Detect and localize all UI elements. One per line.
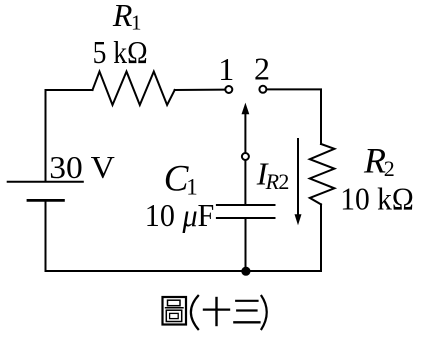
switch pole circle — [242, 153, 249, 160]
svg-text:10 μF: 10 μF — [145, 197, 215, 233]
switch terminal 2 circle — [259, 86, 266, 93]
battery V1 short plate — [28, 199, 63, 202]
wire R1 to switch terminal 1 — [175, 89, 225, 91]
wire bottom rail — [46, 270, 322, 272]
svg-text:R: R — [265, 169, 280, 194]
svg-text:1: 1 — [218, 51, 234, 87]
junction node dot — [241, 267, 250, 276]
svg-text:R: R — [112, 0, 133, 33]
svg-text:2: 2 — [384, 156, 395, 181]
caption glyph TU (figure) outer box — [163, 297, 187, 325]
caption open parenthesis — [191, 295, 199, 330]
battery V1 long plate — [8, 181, 83, 183]
resistor R2 — [310, 144, 335, 204]
wire right rail bottom — [320, 204, 322, 271]
wire left rail bottom — [45, 201, 47, 271]
resistor R1 — [93, 72, 175, 106]
caption glyph SAN (three) middle stroke — [236, 309, 258, 311]
capacitor C1 bottom lead — [245, 218, 247, 271]
current IR2 arrow line — [297, 139, 299, 215]
capacitor C1 top lead — [244, 161, 246, 205]
wire left rail top — [46, 90, 93, 181]
current IR2 arrowhead — [295, 214, 302, 225]
switch pole wire with arrow — [244, 112, 246, 152]
caption glyph TU bottom inner box — [170, 313, 179, 318]
capacitor C1 top plate — [217, 204, 275, 206]
switch arrowhead — [242, 103, 250, 115]
svg-text:2: 2 — [254, 51, 270, 87]
caption glyph TU inner top box — [168, 300, 181, 306]
capacitor C1 bottom plate — [217, 217, 275, 219]
caption glyph SHI (ten) vertical — [215, 297, 217, 326]
caption glyph TU middle horizontal — [165, 307, 184, 309]
svg-text:1: 1 — [131, 10, 142, 34]
caption glyph SAN (three) bottom stroke — [233, 321, 260, 323]
svg-text:5 kΩ: 5 kΩ — [93, 34, 148, 70]
svg-text:2: 2 — [278, 169, 289, 194]
caption glyph SAN (three) top stroke — [235, 300, 259, 302]
caption close parenthesis — [261, 295, 267, 330]
svg-text:10 kΩ: 10 kΩ — [340, 181, 414, 217]
wire switch terminal 2 to right rail — [267, 89, 321, 144]
caption figure (thirteen) : drawn glyphs — [163, 295, 267, 330]
caption glyph SHI (ten) horizontal — [203, 309, 230, 311]
svg-text:1: 1 — [186, 174, 198, 199]
caption glyph TU bottom outer box — [166, 310, 181, 321]
switch terminal 1 circle — [225, 86, 232, 93]
svg-text:R: R — [363, 140, 386, 180]
svg-text:30 V: 30 V — [49, 149, 115, 185]
